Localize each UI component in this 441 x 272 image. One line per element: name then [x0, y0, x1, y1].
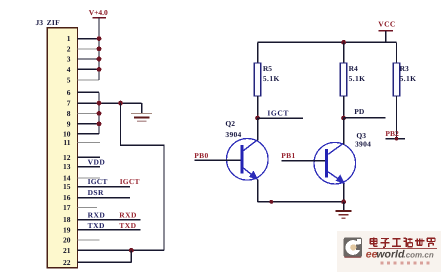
svg-text:PB0: PB0: [194, 151, 208, 160]
svg-text:IGCT: IGCT: [267, 108, 289, 117]
svg-text:IGCT: IGCT: [120, 177, 140, 186]
svg-text:TXD: TXD: [119, 221, 136, 230]
svg-text:7: 7: [67, 99, 71, 108]
svg-text:Q3: Q3: [356, 131, 366, 140]
svg-text:world: world: [376, 248, 405, 260]
svg-text:4: 4: [67, 65, 71, 74]
svg-text:V+4.0: V+4.0: [89, 8, 108, 17]
svg-text:17: 17: [63, 203, 71, 212]
svg-text:8: 8: [67, 109, 71, 118]
svg-text:ZIF: ZIF: [47, 18, 61, 27]
svg-text:PB1: PB1: [281, 151, 295, 160]
svg-text:9: 9: [67, 119, 71, 128]
svg-text:10: 10: [63, 129, 71, 138]
svg-text:18: 18: [63, 215, 71, 224]
svg-text:5.1K: 5.1K: [349, 74, 366, 83]
svg-text:R4: R4: [349, 64, 358, 73]
svg-text:5: 5: [67, 76, 71, 85]
svg-text:19: 19: [63, 225, 71, 234]
svg-text:Q2: Q2: [225, 119, 235, 128]
svg-text:PD: PD: [354, 107, 365, 116]
svg-text:VDD: VDD: [88, 158, 106, 167]
svg-text:2: 2: [67, 44, 71, 53]
svg-text:VCC: VCC: [378, 20, 395, 29]
svg-text:3: 3: [67, 55, 71, 64]
svg-text:RXD: RXD: [119, 210, 137, 219]
svg-text:16: 16: [63, 193, 71, 202]
svg-text:21: 21: [63, 246, 71, 255]
svg-text:5.1K: 5.1K: [263, 74, 280, 83]
svg-text:PB2: PB2: [385, 129, 399, 138]
svg-text:15: 15: [63, 182, 71, 191]
svg-text:J3: J3: [36, 18, 44, 27]
svg-text:.com.cn: .com.cn: [404, 250, 434, 259]
svg-text:3904: 3904: [225, 130, 241, 139]
svg-text:11: 11: [63, 138, 70, 147]
svg-text:13: 13: [63, 162, 71, 171]
svg-text:RXD: RXD: [88, 210, 106, 219]
svg-text:TXD: TXD: [88, 221, 105, 230]
svg-text:12: 12: [63, 153, 71, 162]
svg-text:22: 22: [63, 258, 71, 267]
svg-text:1: 1: [67, 34, 71, 43]
svg-text:6: 6: [67, 88, 71, 97]
svg-text:5.1K: 5.1K: [400, 74, 417, 83]
svg-text:3904: 3904: [355, 140, 371, 149]
svg-text:IGCT: IGCT: [88, 177, 108, 186]
svg-text:R5: R5: [263, 64, 272, 73]
svg-text:DSR: DSR: [88, 188, 104, 197]
svg-text:R3: R3: [400, 64, 409, 73]
svg-text:20: 20: [63, 235, 71, 244]
